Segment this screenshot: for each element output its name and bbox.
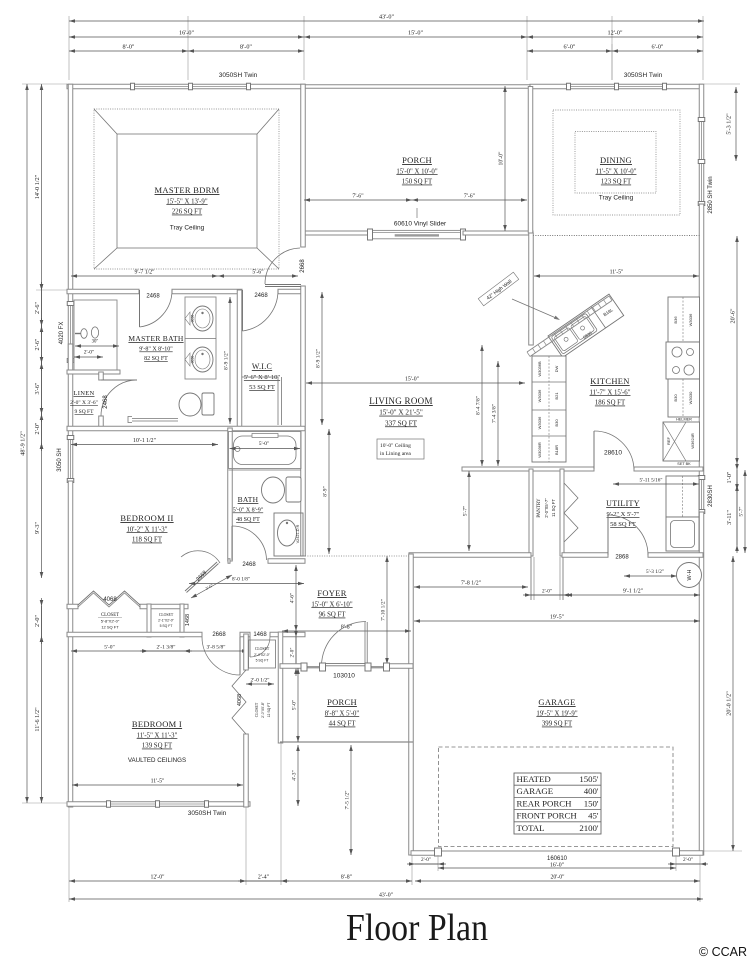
svg-text:150 SQ FT: 150 SQ FT	[402, 179, 433, 186]
dim 9'-1 1/2" garage top right	[566, 589, 700, 597]
closet east wall / porch left wall	[278, 632, 283, 743]
dim 2'-0" garage right	[668, 857, 708, 866]
door 2468 linen arc	[101, 380, 137, 416]
svg-text:10'-2" X 11'-3": 10'-2" X 11'-3"	[127, 526, 168, 533]
svg-text:3050SH Twin: 3050SH Twin	[624, 72, 663, 79]
svg-text:19'-5": 19'-5"	[550, 615, 564, 621]
svg-text:9 SQ FT: 9 SQ FT	[75, 409, 95, 415]
dim 20'-0" bottom	[415, 875, 700, 883]
wall porch bottom left	[301, 231, 370, 235]
svg-text:2'-0"X5'-7": 2'-0"X5'-7"	[544, 498, 549, 518]
door 1468 foyer closet arc	[250, 637, 270, 657]
svg-text:4068: 4068	[103, 597, 117, 603]
svg-text:10'-1 1/2": 10'-1 1/2"	[133, 438, 156, 444]
dim 1'-0" right	[726, 462, 739, 493]
bedroom I bottom wall	[67, 802, 108, 807]
svg-text:5 SQ FT: 5 SQ FT	[256, 659, 269, 663]
svg-text:15'-0": 15'-0"	[408, 30, 423, 37]
svg-text:2'-0": 2'-0"	[34, 422, 41, 434]
svg-text:2'-6": 2'-6"	[34, 338, 41, 350]
svg-text:Tray Ceiling: Tray Ceiling	[599, 195, 634, 202]
wall hall stub / kitchen bottom	[462, 467, 594, 471]
wall right dining-kitchen	[699, 204, 704, 477]
garage door dashed outline	[439, 747, 674, 847]
svg-text:7'-8 1/2": 7'-8 1/2"	[461, 581, 481, 587]
svg-text:58 SQ FT: 58 SQ FT	[610, 521, 636, 528]
svg-text:139 SQ FT: 139 SQ FT	[142, 743, 173, 750]
wall porch bottom right	[463, 231, 533, 235]
bath south wall	[228, 559, 230, 564]
dim 6'-0" left	[527, 44, 612, 53]
dim 16'-0" garage door	[438, 863, 676, 870]
svg-text:2'-1"X2'-0": 2'-1"X2'-0"	[158, 619, 175, 623]
door 2468 bath arc	[232, 526, 267, 560]
svg-text:5'-11 5/16": 5'-11 5/16"	[640, 478, 663, 484]
svg-text:W3030: W3030	[688, 391, 693, 404]
dim 7'-10 1/2" foyer	[381, 556, 389, 664]
dim 5'-0" tub	[230, 441, 301, 450]
living ceiling note box	[377, 439, 424, 459]
svg-text:8'-9": 8'-9"	[323, 486, 329, 497]
wall left lower	[68, 481, 73, 807]
svg-text:4'-3": 4'-3"	[292, 770, 298, 781]
dim 7'-6" porch right	[412, 194, 527, 202]
svg-text:2868: 2868	[615, 555, 629, 561]
dim 5'-7" hall vert	[463, 471, 471, 551]
svg-text:15'-0": 15'-0"	[405, 377, 419, 383]
svg-text:14'-0 1/2": 14'-0 1/2"	[34, 174, 41, 199]
svg-text:1468: 1468	[253, 632, 267, 638]
dim 2'-0" left	[34, 406, 43, 451]
svg-text:15'-0" X 10'-0": 15'-0" X 10'-0"	[396, 168, 437, 175]
svg-text:BEDROOM I: BEDROOM I	[132, 719, 182, 729]
closet bottom wall	[67, 632, 202, 637]
svg-text:2'-0": 2'-0"	[84, 350, 95, 356]
svg-text:7'-5 1/2": 7'-5 1/2"	[345, 791, 351, 810]
svg-text:186 SQ FT: 186 SQ FT	[595, 400, 626, 407]
svg-text:3036: 3036	[191, 315, 195, 323]
shower head	[81, 329, 87, 339]
dim 3'-6" bedroom II door diagonal	[191, 575, 232, 598]
dim 11'-6 1/2" left	[34, 636, 43, 803]
svg-text:BATH: BATH	[238, 495, 259, 504]
wall master bedroom bottom	[67, 289, 139, 294]
dim 7'-8 1/2" garage top	[414, 581, 528, 589]
dim 3'-11" right	[726, 482, 739, 553]
dim 10'-1 1/2" bedroom II	[71, 438, 218, 446]
svg-text:15'-0" X 21'-5": 15'-0" X 21'-5"	[379, 409, 423, 417]
svg-text:3'-8 5/8": 3'-8 5/8"	[207, 645, 226, 651]
door 28610 arc	[594, 431, 634, 469]
svg-text:2'-0": 2'-0"	[421, 857, 431, 863]
svg-text:MASTER BATH: MASTER BATH	[128, 334, 183, 343]
svg-text:2'-1 3/8": 2'-1 3/8"	[157, 645, 176, 651]
utility south wall	[409, 553, 531, 558]
wall bath/wic divider vertical	[237, 290, 242, 427]
window 4020 FX left	[67, 302, 74, 363]
foyer east / garage west wall	[409, 554, 414, 855]
room label BEDROOM I	[132, 719, 182, 750]
dim 20'-0 1/2" garage right	[726, 556, 735, 851]
garage south wall	[411, 851, 438, 856]
svg-text:V2421-D R: V2421-D R	[296, 524, 300, 543]
dim 8'-9 1/2" wic right	[316, 292, 324, 425]
dim 7'-5 1/2"	[345, 745, 353, 855]
wall top porch	[305, 85, 530, 89]
svg-text:160610: 160610	[547, 856, 568, 862]
foyer ceiling break dotted	[305, 555, 409, 557]
door 2668 master arc	[265, 248, 301, 287]
cooktop	[666, 342, 700, 379]
svg-text:48 SQ FT: 48 SQ FT	[236, 517, 260, 523]
room label BEDROOM II	[120, 513, 173, 544]
dim 15'-0" living	[306, 377, 525, 385]
svg-text:W3036: W3036	[688, 313, 693, 326]
svg-text:7'-10 1/2": 7'-10 1/2"	[381, 599, 387, 621]
svg-text:2668: 2668	[300, 259, 306, 273]
svg-text:W3036R: W3036R	[537, 442, 542, 458]
room label LIVING ROOM	[369, 396, 433, 427]
dim 43'-0" bottom	[69, 893, 703, 901]
wall master right / living left	[301, 84, 306, 247]
wall top dining right	[665, 84, 703, 89]
svg-text:5'-3 1/2": 5'-3 1/2"	[646, 569, 664, 575]
sliding door 60610	[368, 229, 466, 240]
svg-text:in Lining area: in Lining area	[380, 451, 411, 457]
svg-text:2468: 2468	[242, 562, 256, 568]
svg-text:8'-0": 8'-0"	[240, 44, 252, 51]
svg-text:5'-3 1/2": 5'-3 1/2"	[726, 113, 733, 135]
svg-text:8'-4 7/8": 8'-4 7/8"	[476, 396, 482, 415]
svg-text:SET BK: SET BK	[677, 462, 691, 466]
bottom extension lines	[68, 807, 70, 902]
svg-text:VAULTED CEILINGS: VAULTED CEILINGS	[128, 757, 186, 764]
svg-text:HELMER: HELMER	[676, 418, 692, 422]
wall dining left	[528, 87, 533, 234]
svg-text:12'-0": 12'-0"	[608, 30, 623, 37]
svg-text:1'-0": 1'-0"	[726, 471, 733, 483]
tray ceiling master inner	[117, 134, 257, 248]
tray ceiling dining inner dotted	[575, 132, 656, 194]
dim 2'-0" foyer closet side	[290, 629, 298, 676]
svg-text:7'-6": 7'-6"	[464, 194, 475, 200]
dim 5'-3 1/2" right top	[726, 87, 738, 161]
room label LINEN	[70, 390, 98, 415]
svg-text:Floor Plan: Floor Plan	[346, 907, 488, 949]
svg-text:9'-7 1/2": 9'-7 1/2"	[135, 270, 155, 276]
pantry bifold door zigzag	[564, 483, 578, 542]
right extension lines	[704, 83, 740, 85]
svg-text:2830SH: 2830SH	[708, 485, 714, 507]
tray ceiling master diagonals	[94, 109, 117, 134]
dim 16'-0"	[69, 30, 304, 39]
svg-text:15'-5" X 13'-9": 15'-5" X 13'-9"	[166, 198, 207, 205]
tray ceiling dining outer dotted	[553, 110, 680, 215]
svg-text:5'-8"X2'-0": 5'-8"X2'-0"	[101, 619, 120, 624]
bedroom I corner closet zigzag	[232, 670, 246, 734]
svg-text:GARAGE: GARAGE	[517, 786, 554, 796]
svg-text:2'-4"X2'-0": 2'-4"X2'-0"	[254, 653, 271, 657]
front wall with door 103010	[280, 664, 303, 669]
dim 8'-9 1/2" wic left	[224, 297, 232, 424]
dim 8'-0" right	[188, 44, 304, 53]
svg-text:15'-0" X 6'-10": 15'-0" X 6'-10"	[311, 601, 352, 608]
dim 12'-0"	[527, 30, 703, 39]
dim 5'-7" utility right edge	[739, 470, 747, 553]
foyer closet box	[249, 640, 276, 668]
dim 43'-0" top	[69, 14, 704, 23]
svg-text:4020 FX: 4020 FX	[59, 322, 65, 345]
svg-text:5'-0": 5'-0"	[104, 645, 115, 651]
svg-text:5'-7": 5'-7"	[739, 507, 745, 517]
dim 48'-9 1/2" left outer	[20, 84, 29, 803]
svg-text:9'-3": 9'-3"	[34, 522, 41, 534]
tub	[229, 432, 302, 469]
svg-text:11'-7" X 15'-6": 11'-7" X 15'-6"	[590, 389, 631, 396]
svg-text:2468: 2468	[254, 293, 268, 299]
wic shelf lines	[242, 376, 278, 378]
svg-text:B36: B36	[673, 316, 678, 324]
svg-text:11'-5" X 11'-3": 11'-5" X 11'-3"	[137, 732, 178, 739]
toilet master	[202, 393, 214, 415]
svg-text:11'-6 1/2": 11'-6 1/2"	[34, 707, 41, 732]
svg-text:2468: 2468	[103, 395, 109, 409]
svg-text:8'-9 1/2": 8'-9 1/2"	[224, 351, 230, 370]
dim 5'-6" wic width	[218, 270, 298, 278]
svg-text:Tray Ceiling: Tray Ceiling	[170, 225, 205, 232]
room label PORCH rear	[396, 155, 437, 186]
dim 4'-6" foyer	[290, 565, 298, 631]
tray ceiling master outer dotted	[94, 109, 279, 269]
svg-text:118 SQ FT: 118 SQ FT	[132, 537, 163, 544]
svg-text:12'-0": 12'-0"	[150, 875, 164, 881]
svg-text:10'-0" Ceiling: 10'-0" Ceiling	[380, 443, 411, 449]
svg-text:2'-0": 2'-0"	[290, 648, 296, 658]
svg-text:PORCH: PORCH	[327, 697, 357, 707]
dim 30in shower	[75, 340, 119, 348]
dim 8'-0 1/8" hall	[189, 577, 304, 586]
wall right dining upper	[699, 84, 704, 119]
svg-text:CLOSET: CLOSET	[255, 647, 270, 651]
svg-text:FRONT PORCH: FRONT PORCH	[517, 811, 578, 821]
svg-text:5'-6" X 8'-10": 5'-6" X 8'-10"	[244, 374, 281, 381]
svg-text:3050SH Twin: 3050SH Twin	[219, 72, 258, 79]
garage doorway jambs	[530, 557, 532, 600]
wall right utility-garage	[699, 512, 704, 855]
window 3050SH twin bedroom I	[107, 801, 209, 808]
wall top dining left	[530, 84, 568, 89]
kitchen left counter column	[532, 356, 566, 462]
svg-text:19'-5" X 19'-9": 19'-5" X 19'-9"	[536, 710, 577, 717]
svg-text:60610 Vinyl Slider: 60610 Vinyl Slider	[394, 221, 447, 228]
dim 19'-5" garage	[414, 615, 700, 623]
dim 20'-6" right	[730, 236, 739, 464]
bedroom I right wall upper	[244, 634, 249, 670]
svg-text:16'-0": 16'-0"	[179, 30, 194, 37]
svg-text:43'-0": 43'-0"	[379, 14, 394, 21]
svg-text:LINEN: LINEN	[74, 390, 95, 397]
room label FOYER	[311, 588, 352, 619]
svg-text:8'-0": 8'-0"	[123, 44, 135, 51]
shower master	[74, 300, 117, 370]
svg-text:20'-0": 20'-0"	[550, 875, 564, 881]
wall bath left	[228, 428, 233, 561]
wall top master bedroom	[67, 84, 132, 89]
svg-text:44 SQ FT: 44 SQ FT	[329, 721, 357, 728]
dim 8'-8" porch top	[282, 625, 411, 633]
front door 103010 panel and sidelites	[301, 622, 390, 672]
dim 15'-0" top	[304, 30, 527, 39]
svg-text:11'-5": 11'-5"	[151, 779, 165, 785]
svg-text:3050SH Twin: 3050SH Twin	[188, 810, 227, 817]
svg-text:2100': 2100'	[579, 823, 599, 833]
svg-text:45': 45'	[588, 811, 599, 821]
svg-text:8'-8": 8'-8"	[341, 625, 352, 631]
svg-text:16'-0": 16'-0"	[550, 863, 564, 869]
svg-text:399 SQ FT: 399 SQ FT	[542, 721, 573, 728]
svg-text:10'-0": 10'-0"	[499, 151, 505, 165]
washer	[666, 517, 699, 551]
room label BATH	[233, 495, 264, 523]
svg-text:B18R: B18R	[554, 445, 559, 455]
room label GARAGE	[536, 697, 577, 728]
door 2468 master bath arc	[140, 290, 173, 327]
svg-text:1468: 1468	[185, 614, 191, 626]
svg-text:W3036B: W3036B	[537, 361, 542, 377]
svg-text:1505': 1505'	[579, 774, 599, 784]
svg-text:2'-4": 2'-4"	[258, 875, 269, 881]
wall wic bottom	[67, 426, 305, 431]
dim 2'-0 1/2 corner closet	[246, 678, 274, 686]
svg-text:BEDROOM II: BEDROOM II	[120, 513, 173, 523]
dim 8'-8" bottom	[281, 875, 412, 883]
svg-text:6'-0": 6'-0"	[652, 44, 664, 51]
bedroom II door 2668 diagonal	[181, 551, 220, 593]
svg-text:8'-9 1/2": 8'-9 1/2"	[316, 349, 322, 368]
window 3050SH twin master top	[131, 83, 251, 90]
svg-text:8'-0 1/8": 8'-0 1/8"	[232, 577, 250, 583]
room label UTILITY	[606, 499, 640, 528]
dining bottom ceiling dotted line	[533, 235, 701, 237]
svg-text:B30: B30	[554, 419, 559, 427]
room label KITCHEN	[590, 376, 631, 407]
svg-text:20'-6": 20'-6"	[730, 308, 737, 323]
svg-text:7'-6": 7'-6"	[352, 194, 363, 200]
svg-text:12 SQ FT: 12 SQ FT	[267, 703, 271, 718]
svg-text:CLOSET: CLOSET	[159, 613, 174, 617]
svg-text:DW: DW	[554, 365, 559, 372]
svg-text:W-H: W-H	[687, 570, 693, 581]
svg-text:KITCHEN: KITCHEN	[590, 376, 629, 386]
svg-text:11'-5" X 10'-0": 11'-5" X 10'-0"	[596, 168, 637, 175]
svg-text:UTILITY: UTILITY	[606, 499, 640, 508]
svg-text:20'-0 1/2": 20'-0 1/2"	[726, 691, 733, 716]
svg-text:B21: B21	[554, 392, 559, 400]
svg-text:5'-0": 5'-0"	[292, 700, 298, 711]
svg-text:5'-6": 5'-6"	[252, 270, 263, 276]
svg-text:48'-9 1/2": 48'-9 1/2"	[20, 431, 27, 456]
dim 5'-0" porch front	[292, 668, 300, 742]
dim 7'-4 3/8" kitchen vert	[492, 361, 500, 466]
svg-text:4'-6": 4'-6"	[290, 593, 296, 604]
dim 4'-3"	[292, 745, 300, 806]
svg-text:3'-11": 3'-11"	[726, 510, 733, 525]
room label MASTER BDRM	[155, 185, 220, 232]
room label WIC	[244, 362, 281, 391]
svg-text:PORCH: PORCH	[402, 155, 432, 165]
dims closet row	[71, 645, 148, 653]
dim 2'-0" left closet	[34, 598, 43, 644]
wall master bath divider	[67, 370, 120, 374]
svg-text:MASTER BDRM: MASTER BDRM	[155, 185, 220, 195]
dim 14'-0 1/2" left	[34, 84, 43, 290]
svg-text:4068: 4068	[237, 694, 243, 706]
svg-text:43'-0": 43'-0"	[379, 893, 393, 899]
svg-text:150': 150'	[584, 798, 599, 808]
svg-text:W3624R: W3624R	[690, 433, 695, 449]
svg-text:103010: 103010	[333, 673, 355, 680]
svg-text:5 SQ FT: 5 SQ FT	[160, 624, 173, 628]
svg-text:© CCAR: © CCAR	[699, 945, 747, 959]
dim 7'-6" porch left	[304, 194, 412, 202]
wall linen right	[99, 372, 104, 380]
porch front edge	[280, 741, 413, 743]
svg-text:FOYER: FOYER	[317, 588, 346, 598]
svg-text:REF: REF	[666, 436, 671, 445]
svg-text:2'-0": 2'-0"	[683, 857, 693, 863]
master bath towel shelf	[132, 418, 178, 420]
door 2468 wic arc	[243, 290, 279, 331]
room label PORCH front	[325, 697, 360, 728]
dim 2'-6" left b	[34, 318, 43, 371]
bedroom I right wall lower	[244, 734, 249, 807]
svg-text:2'-0" X 3'-6": 2'-0" X 3'-6"	[70, 400, 98, 406]
dim 9'-7 1/2" master bottom	[71, 270, 218, 278]
dim 5'-3 1/2" wh	[624, 569, 677, 578]
kitchen right counter lower	[668, 379, 700, 417]
svg-text:6'-0": 6'-0"	[564, 44, 576, 51]
extension lines top	[68, 16, 70, 80]
svg-text:W3036: W3036	[537, 389, 542, 402]
room label DINING	[596, 155, 637, 202]
window 3050SH twin dining top	[567, 83, 667, 90]
svg-text:3050 SH: 3050 SH	[57, 448, 63, 471]
svg-text:12 SQ FT: 12 SQ FT	[101, 625, 119, 630]
svg-text:96 SQ FT: 96 SQ FT	[319, 612, 347, 619]
svg-text:5'-0": 5'-0"	[259, 441, 270, 447]
dim 2'-0" garage doorway	[523, 589, 571, 597]
svg-text:HEATED: HEATED	[517, 774, 551, 784]
label 42in high wall	[478, 272, 519, 306]
svg-text:CLOSET: CLOSET	[255, 702, 259, 717]
room label MASTER BATH	[128, 334, 183, 362]
window 2830SH utility right	[698, 476, 705, 514]
svg-text:82 SQ FT: 82 SQ FT	[144, 356, 168, 362]
svg-text:8'-8" X 5'-0": 8'-8" X 5'-0"	[325, 710, 360, 717]
door 2868 arc	[608, 515, 648, 555]
svg-text:8'-8": 8'-8"	[341, 875, 352, 881]
svg-text:9'-2" X 5'-7": 9'-2" X 5'-7"	[607, 511, 640, 518]
svg-text:LIVING ROOM: LIVING ROOM	[369, 396, 433, 406]
dim 3'-6" left	[34, 355, 43, 422]
wall kitchen left upper	[529, 233, 534, 345]
42in high wall diagonal hatched	[527, 296, 612, 357]
svg-text:30": 30"	[92, 340, 99, 345]
svg-text:11'-5": 11'-5"	[610, 270, 624, 276]
kitchen island angled counter with sink	[548, 294, 624, 357]
left extension lines	[22, 83, 67, 85]
svg-text:B30: B30	[673, 394, 678, 402]
